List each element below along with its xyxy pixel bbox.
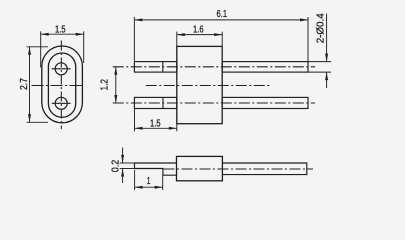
body (bottom view) xyxy=(177,156,223,180)
dim 0.2 line upper xyxy=(122,148,124,163)
dim 1.2 line xyxy=(115,67,117,103)
svg-text:1.5: 1.5 xyxy=(150,118,161,130)
wire right (bottom view) xyxy=(222,163,306,175)
front view outer flange (obround) xyxy=(42,46,83,123)
svg-text:6.1: 6.1 xyxy=(217,8,228,20)
dim 6.1 line xyxy=(134,19,308,21)
arrow 2.7 top xyxy=(28,47,31,55)
arrow 1.2 top xyxy=(114,67,117,75)
arrow 1.6 left xyxy=(177,33,185,36)
arrow 1.5 front right xyxy=(76,33,84,36)
lead top-left tick xyxy=(162,62,164,73)
arrow 6.1 left xyxy=(134,18,142,21)
dim 1.5 side ext lines xyxy=(134,109,136,132)
svg-text:2.7: 2.7 xyxy=(18,78,30,90)
centerline vertical (front view) xyxy=(60,41,62,130)
centerline horizontal mid (front view) xyxy=(32,85,84,87)
hole top xyxy=(55,63,67,75)
dim 2.7 line xyxy=(29,47,31,123)
svg-text:1: 1 xyxy=(147,175,151,187)
dim 1.5 front ext lines xyxy=(40,31,42,67)
arrow 1.5 side right xyxy=(169,127,177,130)
svg-text:1.2: 1.2 xyxy=(98,79,110,91)
dim 1 bottom line xyxy=(135,186,163,188)
svg-text:1.6: 1.6 xyxy=(193,23,204,35)
dim 2.7 ext lines xyxy=(27,46,49,48)
hole bottom xyxy=(55,97,67,109)
arrow 1.5 side left xyxy=(135,127,143,130)
svg-text:0.2: 0.2 xyxy=(109,160,121,173)
arrow 1.6 right xyxy=(214,33,222,36)
dim dia0.4 ext lines xyxy=(308,61,331,63)
lead top-left xyxy=(134,62,176,73)
svg-text:2-Ø0.4: 2-Ø0.4 xyxy=(315,13,327,43)
axis centerline (bottom view) xyxy=(164,168,314,170)
front view inner flange rim xyxy=(48,53,75,117)
arrow 6.1 right xyxy=(300,18,308,21)
dim 6.1 ext lines xyxy=(133,17,135,62)
centerline top lead xyxy=(113,66,315,68)
arrow 1 bottom left xyxy=(135,186,143,189)
arrow 1.2 bottom xyxy=(114,95,117,103)
dim 1.5 side line xyxy=(135,127,177,129)
dim 0.2 line lower xyxy=(122,169,124,183)
dim 1 bottom ext lines xyxy=(134,170,136,190)
dim dia0.4 line lower xyxy=(326,72,328,88)
centerline bottom lead xyxy=(113,102,315,104)
arrow dia0.4 up xyxy=(325,72,328,80)
dim 1.6 ext lines xyxy=(176,32,178,47)
crosshair hole top xyxy=(52,68,71,70)
body (side view) xyxy=(177,46,222,123)
lead bottom-right xyxy=(222,97,308,108)
arrow dia0.4 down xyxy=(325,54,328,62)
arrow 0.2 up xyxy=(121,169,124,177)
lead bottom-left xyxy=(134,97,176,108)
arrow 1.5 front left xyxy=(41,33,49,36)
arrow 2.7 bottom xyxy=(28,114,31,122)
crosshair hole bottom xyxy=(52,102,71,104)
dim 1.6 line xyxy=(177,34,222,36)
dim 1.5 front line xyxy=(41,33,84,35)
arrow 0.2 down xyxy=(121,155,124,163)
ribbon lead (bottom view) xyxy=(135,163,177,175)
svg-text:1.5: 1.5 xyxy=(55,23,66,35)
dim dia0.4 line upper xyxy=(326,14,328,62)
lead bottom-left tick xyxy=(162,97,164,108)
arrow 1 bottom right xyxy=(155,186,163,189)
dim 0.2 ext lines xyxy=(120,162,135,164)
lead top-right xyxy=(222,62,308,73)
axis centerline (side view) xyxy=(146,85,270,87)
